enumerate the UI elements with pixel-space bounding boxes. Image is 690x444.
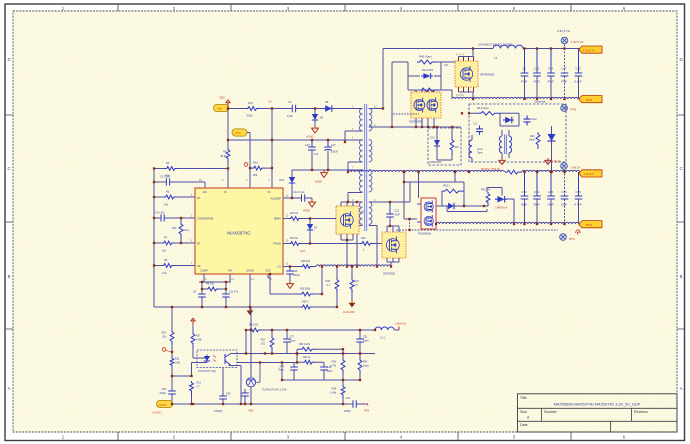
svg-text:44D: 44D [530, 135, 535, 138]
svg-text:Open: Open [529, 139, 536, 142]
wire aux rail y140 [228, 139, 363, 141]
capacitor C31 [356, 330, 369, 354]
svg-text:47uF: 47uF [547, 80, 554, 84]
resistor R21 [190, 381, 194, 394]
resistor R45 [450, 138, 454, 154]
wire 1.8V rail wavy [348, 170, 580, 172]
svg-text:FDS9926A: FDS9926A [418, 232, 431, 236]
svg-text:C: C [679, 166, 682, 171]
svg-text:R10: R10 [253, 160, 258, 164]
resistor R15 [289, 242, 302, 246]
svg-text:39uF: 39uF [521, 203, 528, 207]
svg-text:C21 47n: C21 47n [229, 291, 239, 294]
capacitor C45 [547, 172, 555, 224]
svg-text:C30: C30 [575, 67, 581, 71]
svg-text:R24 0: R24 0 [302, 301, 309, 304]
svg-text:R41 Open: R41 Open [477, 106, 489, 110]
resistor R7 [162, 241, 175, 245]
capacitor C17 polarized [324, 140, 338, 170]
resistor R38 [341, 385, 345, 398]
svg-text:VC: VC [269, 100, 273, 104]
terminal oval VCC [232, 129, 247, 136]
svg-text:68nF: 68nF [327, 370, 333, 373]
resistor R36 [341, 358, 345, 374]
svg-text:R13: R13 [172, 227, 177, 230]
svg-text:1000p: 1000p [159, 392, 166, 395]
diode D13 snubber [503, 117, 514, 123]
wire VC column [271, 109, 273, 189]
svg-text:Revision: Revision [634, 410, 648, 414]
resistor R46 [536, 132, 540, 149]
capacitor C47 on dashed sense line [561, 45, 569, 100]
wire fb lower y380 [282, 363, 360, 381]
ground T3 right [545, 158, 551, 165]
capacitor C23 on CS [286, 267, 300, 282]
svg-text:Open: Open [363, 364, 370, 367]
wire aux return y170 [292, 169, 363, 171]
transistor N2 MOSFET [455, 61, 478, 87]
svg-text:R8 10k: R8 10k [206, 283, 215, 286]
capacitor C3 series [292, 105, 295, 113]
svg-text:C16: C16 [305, 144, 310, 147]
svg-text:RTN: RTN [571, 108, 577, 112]
resistor R6 [162, 264, 175, 268]
wire mid fb y353.5 [237, 353, 375, 355]
diode D10 [421, 73, 433, 79]
transformer T1 winding 3 [359, 170, 362, 192]
resistor R34 [300, 347, 316, 351]
svg-text:R15 51: R15 51 [290, 237, 299, 240]
svg-text:L3 1: L3 1 [380, 336, 385, 339]
ground ALDOBP [309, 200, 316, 208]
capacitor C29 [168, 391, 176, 394]
inductor L3 [375, 327, 394, 330]
svg-text:39uF: 39uF [533, 203, 540, 207]
capacitor C2 [521, 49, 529, 99]
resistor R31 [170, 357, 174, 368]
resistor R47 [486, 192, 490, 206]
capacitor C16 [305, 140, 319, 170]
svg-text:3.2k: 3.2k [162, 272, 167, 275]
svg-text:C3: C3 [288, 100, 292, 104]
capacitor C30 [574, 49, 582, 99]
resistor R42 [303, 360, 315, 364]
resistor R5 [164, 195, 177, 199]
svg-text:L2: L2 [494, 56, 498, 60]
svg-text:100uF: 100uF [331, 151, 339, 154]
optional box B dashed [469, 104, 566, 162]
svg-text:R4U 1%: R4U 1% [481, 189, 491, 192]
capacitor C22 [386, 202, 400, 226]
svg-text:240pF: 240pF [344, 410, 351, 413]
ground AGND under D9 [312, 126, 319, 134]
svg-text:C34: C34 [534, 190, 540, 194]
svg-text:C31: C31 [363, 336, 368, 339]
test point TP2 RTN [561, 105, 568, 112]
svg-text:D8: D8 [325, 100, 329, 104]
resistor R44 [358, 358, 362, 374]
svg-text:1uF: 1uF [314, 153, 319, 156]
wire vertical second [391, 62, 393, 127]
svg-text:IN: IN [224, 190, 227, 194]
svg-text:R42 1k: R42 1k [303, 356, 311, 359]
resistor R24 [301, 305, 313, 309]
transistor N1 dual MOSFET [411, 92, 441, 118]
resistor R19 sense [335, 278, 339, 293]
transformer T1 core [365, 104, 367, 231]
diode D12 vertical aux rect [279, 170, 295, 198]
svg-text:B: B [680, 274, 683, 279]
svg-text:RTN: RTN [586, 223, 592, 227]
resistor R8 [206, 287, 220, 291]
left zone ticks [6, 115, 13, 329]
svg-text:AUX/GND: AUX/GND [343, 311, 355, 314]
wire opto drive column x193 [192, 326, 194, 404]
capacitor C40 series [353, 400, 356, 408]
resistor R23 [170, 330, 174, 345]
svg-text:CONNECTED TO 'VOME': CONNECTED TO 'VOME' [478, 43, 513, 47]
svg-text:SS: SS [197, 264, 201, 268]
terminal label RTN top [579, 96, 602, 103]
svg-text:3.3V,5.7A: 3.3V,5.7A [557, 29, 570, 33]
wire R18 loop [270, 267, 322, 295]
diode D8 [323, 105, 334, 111]
svg-text:Open: Open [477, 152, 484, 155]
resistor R27 [191, 332, 195, 347]
terminal label RTN2 [579, 221, 602, 228]
svg-text:RTN: RTN [364, 408, 369, 412]
svg-text:R14: R14 [248, 101, 253, 105]
svg-text:Size: Size [520, 410, 527, 414]
svg-text:A: A [680, 386, 683, 391]
optocoupler U3 [197, 350, 237, 368]
net circle marker G [162, 348, 166, 352]
svg-text:D10 DPN: D10 DPN [422, 68, 433, 72]
inductor L2 [493, 45, 523, 48]
svg-text:C40: C40 [346, 397, 351, 400]
svg-text:AUX: AUX [300, 250, 305, 253]
svg-text:A: A [8, 386, 11, 391]
wire secondary winding row [372, 126, 461, 128]
svg-text:MAX5969B-MAX5974D-MAX5974C 3.: MAX5969B-MAX5974D-MAX5974C 3.3V_5V_GDP [554, 403, 641, 407]
wire snubber row [392, 62, 455, 99]
diode D7 vertical [307, 219, 318, 244]
svg-text:VCC: VCC [235, 131, 241, 135]
diode D15 [446, 203, 456, 209]
resistor R40 [417, 60, 437, 64]
svg-text:Open: Open [531, 118, 538, 121]
diode D11 [429, 127, 442, 164]
wire drop to sync fet [404, 172, 464, 219]
svg-text:R18 560k: R18 560k [300, 288, 311, 291]
svg-text:1.8V,1A: 1.8V,1A [571, 165, 581, 169]
resistor R22 [360, 242, 374, 246]
svg-text:SGND: SGND [246, 269, 254, 273]
svg-text:C29: C29 [162, 388, 167, 391]
terminal oval VIN [214, 104, 229, 111]
transistor N3 dual sync FET [421, 198, 436, 229]
wire DRV y243.5 [283, 243, 382, 245]
svg-text:100k: 100k [175, 361, 181, 364]
test point TP4 RTN2 [560, 234, 567, 241]
test point TP1 3.3V [561, 37, 568, 44]
transformer T1 winding 4 [359, 202, 362, 224]
svg-text:B: B [8, 274, 11, 279]
wire dashed gate sense [393, 113, 419, 115]
svg-text:R43 1: R43 1 [443, 184, 450, 188]
svg-text:Optional: Optional [534, 100, 546, 104]
svg-text:CMPSH1-4: CMPSH1-4 [495, 207, 508, 210]
resistor R37 sense [350, 278, 354, 293]
svg-text:R37: R37 [355, 280, 360, 283]
capacitor C39 [278, 363, 298, 381]
wire CS bus y266.5 [283, 266, 316, 268]
svg-text:1M: 1M [455, 146, 458, 149]
svg-text:R36: R36 [332, 361, 337, 364]
wire ALDOBP y198 with cap C12 [283, 198, 312, 200]
svg-text:4.75k: 4.75k [330, 364, 337, 367]
svg-text:C46: C46 [561, 190, 567, 194]
svg-text:R40 Open: R40 Open [419, 55, 432, 59]
wire VIN column with R9 [227, 109, 229, 189]
svg-text:TCMT1107 (U3): TCMT1107 (U3) [198, 370, 216, 373]
svg-text:560pF: 560pF [293, 274, 300, 277]
ground under C23 [287, 281, 294, 289]
svg-text:Open: Open [290, 339, 297, 342]
resistor R06 [419, 88, 439, 92]
svg-text:3 2 5 6: 3 2 5 6 [456, 94, 464, 97]
wire vertical from transformer pin to top bus [382, 49, 384, 109]
resistor R4 [165, 167, 178, 171]
transformer T3 [499, 135, 511, 155]
svg-text:R27: R27 [196, 335, 201, 338]
diode D14 [548, 126, 556, 172]
svg-text:R38: R38 [332, 388, 337, 391]
test point TP3 1.8V [561, 163, 568, 170]
wire T1 pin leads [345, 109, 410, 267]
svg-text:2700pF: 2700pF [214, 410, 223, 413]
inductor L4 vertical [469, 140, 472, 158]
svg-text:C22: C22 [395, 210, 400, 213]
wire gate kelvin dashed [396, 219, 558, 230]
svg-text:R22: R22 [361, 237, 366, 240]
resistor R25 series CS [301, 265, 313, 269]
svg-text:RTN: RTN [569, 237, 575, 241]
wire SGND [249, 274, 251, 307]
resistor R16 [289, 217, 302, 221]
capacitor C35 [574, 172, 582, 224]
svg-text:Date: Date [520, 423, 528, 427]
svg-text:C23: C23 [293, 270, 298, 273]
svg-text:GND: GND [248, 409, 254, 412]
transistor Q2 envelope circle [386, 239, 399, 252]
svg-text:AGND: AGND [307, 136, 314, 139]
svg-text:R21: R21 [197, 382, 202, 385]
TL431 U4 [246, 378, 255, 387]
svg-text:R9: R9 [223, 150, 227, 154]
svg-text:D12: D12 [279, 179, 284, 182]
transformer T1 winding 2 [359, 140, 362, 162]
svg-text:EN: EN [203, 190, 207, 194]
svg-text:AGND: AGND [315, 181, 322, 184]
resistor R33 series [248, 328, 262, 332]
svg-text:D11: D11 [431, 137, 436, 140]
svg-text:C33: C33 [521, 190, 527, 194]
svg-text:COMP: COMP [200, 269, 208, 273]
ground T3 left [499, 158, 505, 165]
svg-text:+VOUT: +VOUT [158, 403, 167, 407]
svg-text:VC: VC [267, 190, 271, 194]
capacitor C27 [283, 330, 296, 354]
resistor R18 [300, 292, 314, 296]
wire NDRV y218.5 [283, 218, 336, 220]
svg-text:10nF: 10nF [395, 214, 401, 217]
resistor R9 [226, 148, 230, 162]
svg-text:C17: C17 [331, 144, 336, 147]
svg-text:DT: DT [197, 196, 201, 200]
svg-text:20uF: 20uF [547, 203, 554, 207]
svg-text:CS: CS [277, 265, 281, 269]
svg-text:1.8V,1A: 1.8V,1A [552, 160, 561, 163]
wire bottom return bus y404 [173, 403, 367, 405]
resistor R13 vertical [179, 222, 183, 238]
capacitor C19 [476, 126, 483, 136]
wire pin y218 with cap C14 [154, 217, 195, 219]
wire divider column x172 [171, 307, 173, 404]
wire COMP network [199, 274, 231, 307]
svg-text:C12 0.1uF: C12 0.1uF [293, 191, 305, 194]
svg-text:4.7uF: 4.7uF [574, 203, 581, 207]
wire opto connections [172, 358, 204, 376]
svg-text:47uF: 47uF [533, 80, 540, 84]
svg-text:C13: C13 [534, 67, 540, 71]
transistor Q1 envelope circle [340, 214, 353, 227]
svg-text:N1: N1 [361, 210, 365, 214]
wire left rail [153, 169, 155, 308]
svg-text:CMPD2003: CMPD2003 [429, 161, 442, 164]
svg-text:C5 0.1uF: C5 0.1uF [160, 175, 171, 178]
wire fb top bus y330 [246, 329, 375, 331]
resistor R10 [252, 166, 265, 170]
capacitor C34 [533, 172, 541, 224]
wire VCC feed [247, 133, 250, 189]
capacitor C41 [241, 389, 249, 404]
svg-text:90k: 90k [253, 173, 258, 177]
transistor N3 envelope circles [424, 202, 433, 211]
svg-text:1.8uH,2A: 1.8uH,2A [395, 321, 406, 325]
wire RTN2 bus [436, 222, 580, 224]
svg-text:C2: C2 [522, 67, 526, 71]
power arrow VB [190, 318, 195, 326]
svg-text:CS/ENDPWM: CS/ENDPWM [197, 217, 213, 221]
wire left feed y168 [154, 168, 228, 170]
svg-text:C19: C19 [473, 123, 478, 126]
svg-text:FB: FB [228, 269, 232, 273]
terminal oval VOUT [157, 400, 173, 407]
svg-text:Open: Open [184, 229, 191, 232]
wire OSC pin stub [268, 274, 270, 278]
transistor Q1 [336, 206, 359, 234]
svg-text:C36: C36 [226, 393, 231, 396]
wire TL431 column [250, 307, 252, 404]
svg-text:MAX5974C: MAX5974C [227, 231, 251, 236]
svg-text:R23: R23 [162, 332, 167, 335]
power arrow VDD [225, 100, 230, 108]
wire RTN wavy bus top [452, 97, 580, 99]
svg-text:RTN: RTN [586, 98, 592, 102]
svg-text:Number: Number [544, 410, 558, 414]
bottom zone ticks [118, 432, 571, 440]
title block [518, 394, 678, 432]
svg-text:0.1uF: 0.1uF [574, 80, 581, 84]
wire top 3.3V bus [383, 48, 580, 50]
svg-text:1.8V,1A: 1.8V,1A [584, 172, 594, 176]
wire pin y243 [154, 242, 195, 244]
svg-text:R16 51: R16 51 [290, 212, 299, 215]
net coil mark red [576, 230, 581, 235]
wire pin y265.5 [154, 265, 195, 267]
svg-text:R32: R32 [261, 339, 266, 342]
svg-text:C: C [7, 166, 10, 171]
svg-text:R34 4.22k: R34 4.22k [299, 343, 311, 346]
svg-text:C44: C44 [548, 67, 554, 71]
wire common ground rail y307 with series R24 [154, 306, 337, 308]
ground AUX/GND [349, 300, 356, 307]
svg-text:R25 496: R25 496 [301, 260, 311, 263]
net circle marker [244, 163, 248, 167]
resistor R32 [270, 336, 274, 351]
svg-text:+VOUT1: +VOUT1 [152, 412, 162, 415]
svg-text:IRFM2608: IRFM2608 [480, 73, 494, 77]
svg-text:PGND: PGND [274, 242, 282, 246]
wire y182 with series cap C5 [154, 182, 205, 188]
svg-text:RT: RT [197, 242, 201, 246]
svg-text:2.49k: 2.49k [330, 391, 337, 394]
svg-text:D: D [679, 57, 682, 62]
svg-text:ALDOBP: ALDOBP [270, 197, 281, 201]
wire to output stage [447, 188, 514, 225]
svg-text:C35: C35 [575, 190, 581, 194]
transformer pin numbers [350, 106, 377, 227]
svg-text:C27: C27 [290, 336, 295, 339]
terminal label 3.3V output [579, 46, 602, 53]
svg-text:13nF: 13nF [287, 114, 293, 118]
svg-text:NDRV: NDRV [274, 217, 282, 221]
capacitor C20 [524, 116, 531, 126]
svg-text:47uF: 47uF [561, 80, 568, 84]
svg-text:TLV431/TL431 1.24V: TLV431/TL431 1.24V [262, 388, 287, 392]
terminal label 1.8V output [579, 170, 602, 177]
svg-text:VDD: VDD [219, 96, 225, 100]
capacitor C36 [214, 368, 231, 413]
svg-text:49.9k: 49.9k [220, 154, 227, 158]
svg-text:25uF: 25uF [561, 203, 568, 207]
svg-text:30KF2600: 30KF2600 [383, 271, 396, 275]
svg-text:R44: R44 [363, 361, 368, 364]
capacitor C33 [521, 172, 529, 224]
capacitor C44 [547, 49, 555, 99]
capacitor C38 [320, 366, 333, 380]
resistor RSYNC in rail [505, 170, 522, 174]
right zone ticks [677, 115, 684, 329]
svg-text:C47: C47 [561, 67, 567, 71]
svg-text:C45: C45 [548, 190, 554, 194]
svg-text:Title: Title [520, 396, 527, 400]
svg-text:4.99k: 4.99k [196, 338, 203, 341]
svg-text:D: D [7, 57, 10, 62]
svg-text:301: 301 [261, 342, 266, 345]
svg-text:R31: R31 [175, 358, 180, 361]
